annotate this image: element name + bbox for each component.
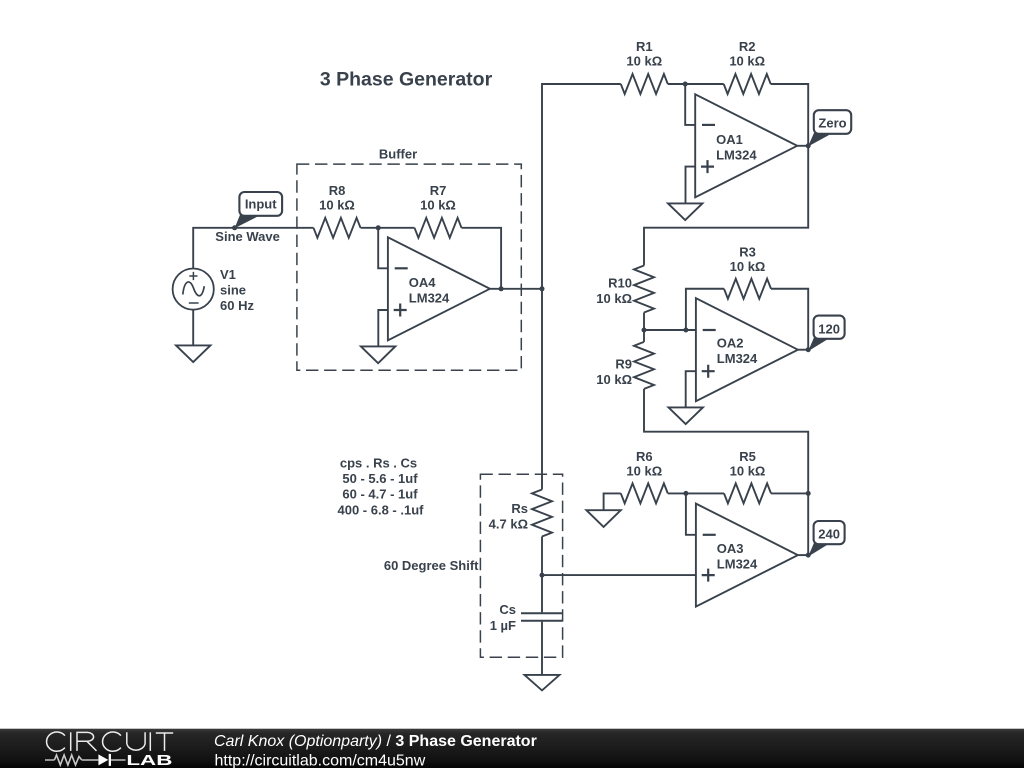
junction OA2 output 120	[806, 347, 811, 352]
node flag 120	[808, 316, 845, 352]
wire OA4 output to bus	[490, 288, 542, 290]
op-amp OA1	[695, 94, 797, 197]
wire R9 bottom to OA3 output node	[644, 389, 808, 555]
svg-text:10 kΩ: 10 kΩ	[596, 372, 632, 387]
wire R1 right to R2 left	[668, 83, 724, 85]
wire OA4 minus input	[378, 228, 388, 268]
node flag 240	[808, 521, 845, 557]
svg-text:10 kΩ: 10 kΩ	[729, 54, 765, 69]
dashed box 60 Degree Shift	[480, 474, 562, 657]
resistor R5	[724, 483, 771, 503]
node flag Zero	[808, 110, 851, 146]
wire R8 right to R7 left	[361, 227, 415, 229]
wire R5 right	[771, 492, 808, 494]
svg-text:R5: R5	[739, 449, 756, 464]
svg-text:R3: R3	[739, 245, 756, 260]
wire R6 right to R5 left	[668, 492, 724, 494]
ground under Cs	[525, 675, 560, 691]
svg-text:60 Degree Shift: 60 Degree Shift	[384, 558, 479, 573]
svg-text:OA2: OA2	[717, 336, 744, 351]
ground at R6 left	[586, 510, 620, 527]
wire input net: V1 top to R8	[193, 228, 313, 269]
svg-text:OA3: OA3	[717, 541, 744, 556]
junction OA4 output / R7	[499, 286, 504, 291]
svg-text:50 - 5.6 - 1uf: 50 - 5.6 - 1uf	[342, 471, 418, 486]
wire OA1 plus input to ground	[686, 167, 696, 204]
svg-text:OA1: OA1	[716, 132, 743, 147]
svg-text:10 kΩ: 10 kΩ	[596, 291, 632, 306]
ground under OA1 plus	[668, 203, 702, 220]
junction input net	[232, 225, 237, 230]
resistor R8	[314, 218, 361, 238]
junction R5 right	[806, 491, 811, 496]
op-amp OA3	[696, 504, 798, 607]
svg-text:R1: R1	[636, 39, 653, 54]
resistor R3	[724, 279, 771, 299]
wire OA4 plus input to ground	[378, 310, 388, 346]
logo resistor-diode glyph	[45, 759, 54, 761]
junction R10/R9	[642, 328, 647, 333]
wire OA3 plus input from RC node	[542, 574, 696, 576]
svg-text:cps . Rs . Cs: cps . Rs . Cs	[340, 456, 417, 471]
svg-text:V1: V1	[220, 267, 236, 282]
svg-text:10 kΩ: 10 kΩ	[730, 259, 766, 274]
svg-text:R6: R6	[636, 449, 653, 464]
node flag Input	[235, 192, 283, 228]
ground under V1	[176, 345, 210, 362]
wire R2 right down to OA1 output	[771, 84, 809, 146]
junction bus tap	[540, 286, 545, 291]
resistor R6	[621, 483, 668, 503]
logo CIRCUIT (thin letters)	[47, 732, 174, 751]
svg-text:10 kΩ: 10 kΩ	[626, 463, 662, 478]
svg-text:LM324: LM324	[717, 351, 758, 366]
svg-text:3 Phase Generator: 3 Phase Generator	[320, 69, 493, 91]
junction Rs/Cs node	[540, 573, 545, 578]
svg-text:1 µF: 1 µF	[490, 618, 516, 633]
wire R7 right down to OA4 output	[462, 228, 502, 289]
junction OA1 output Zero	[806, 143, 811, 148]
ground under OA2 plus	[669, 407, 703, 424]
svg-text:60 Hz: 60 Hz	[220, 298, 254, 313]
wire R3 right down to OA2 output	[771, 289, 808, 350]
junction R1/R2/OA1 minus	[683, 82, 688, 87]
wire R10 bottom to junction	[643, 313, 645, 331]
resistor R7	[415, 218, 462, 238]
svg-text:120: 120	[818, 321, 840, 336]
op-amp OA2	[696, 298, 798, 401]
wire OA2 output	[798, 349, 808, 351]
svg-text:LM324: LM324	[717, 557, 758, 572]
svg-text:Carl Knox (Optionparty) / 3 Ph: Carl Knox (Optionparty) / 3 Phase Genera…	[214, 733, 537, 750]
svg-text:LM324: LM324	[409, 290, 450, 305]
svg-text:Zero: Zero	[818, 115, 846, 130]
capacitor Cs	[521, 613, 562, 621]
svg-text:4.7 kΩ: 4.7 kΩ	[489, 516, 528, 531]
wire Cs bottom to ground	[541, 622, 543, 675]
wire OA3 minus input	[686, 493, 696, 534]
wire R9 junction down	[643, 330, 645, 342]
svg-text:60 - 4.7 - 1uf: 60 - 4.7 - 1uf	[342, 487, 418, 502]
resistor R10 vertical	[634, 266, 654, 313]
ground under OA4 plus	[361, 346, 395, 363]
svg-text:Sine Wave: Sine Wave	[215, 229, 280, 244]
op-amp OA4	[388, 237, 490, 340]
junction R8/R7/OA4 minus	[376, 225, 381, 230]
wire OA2 plus input to ground	[686, 371, 696, 407]
svg-text:http://circuitlab.com/cm4u5nw: http://circuitlab.com/cm4u5nw	[215, 752, 426, 768]
wire junction to OA2 minus input	[644, 329, 696, 331]
resistor R2	[724, 74, 771, 94]
wire R6 left to ground	[604, 493, 621, 510]
wire OA1 minus input	[685, 84, 695, 125]
wire OA1 output down and left to R10	[644, 146, 808, 266]
junction OA3 output 240	[806, 553, 811, 558]
dashed box Buffer	[297, 164, 521, 370]
resistor Rs vertical	[532, 490, 552, 537]
svg-text:Input: Input	[245, 197, 277, 212]
junction R3 branch	[683, 328, 688, 333]
wire bus vertical	[542, 84, 621, 490]
svg-text:LM324: LM324	[716, 147, 757, 162]
svg-text:400 - 6.8 - .1uf: 400 - 6.8 - .1uf	[338, 502, 425, 517]
svg-text:10 kΩ: 10 kΩ	[730, 463, 766, 478]
svg-text:Buffer: Buffer	[379, 147, 417, 162]
svg-text:10 kΩ: 10 kΩ	[626, 54, 662, 69]
svg-text:R9: R9	[615, 357, 632, 372]
wire Rs bottom to Cs	[541, 537, 543, 613]
svg-text:sine: sine	[220, 282, 246, 297]
wire V1 bottom to ground	[192, 310, 194, 346]
wire R3 left branch	[686, 289, 724, 330]
wire OA3 output	[798, 554, 808, 556]
svg-text:OA4: OA4	[409, 275, 437, 290]
svg-text:Cs: Cs	[499, 602, 516, 617]
svg-text:R2: R2	[739, 39, 756, 54]
svg-text:R7: R7	[430, 183, 447, 198]
svg-text:10 kΩ: 10 kΩ	[420, 197, 456, 212]
svg-text:240: 240	[818, 527, 840, 542]
svg-text:R10: R10	[608, 276, 632, 291]
svg-text:10 kΩ: 10 kΩ	[319, 197, 355, 212]
svg-text:LAB: LAB	[126, 753, 172, 768]
wire OA1 output	[797, 145, 808, 147]
resistor R1	[621, 74, 668, 94]
voltage source V1	[173, 267, 255, 313]
svg-text:R8: R8	[329, 183, 346, 198]
resistor R9 vertical	[634, 342, 654, 389]
svg-text:Rs: Rs	[511, 501, 528, 516]
junction R6/R5/OA3 minus	[683, 491, 688, 496]
